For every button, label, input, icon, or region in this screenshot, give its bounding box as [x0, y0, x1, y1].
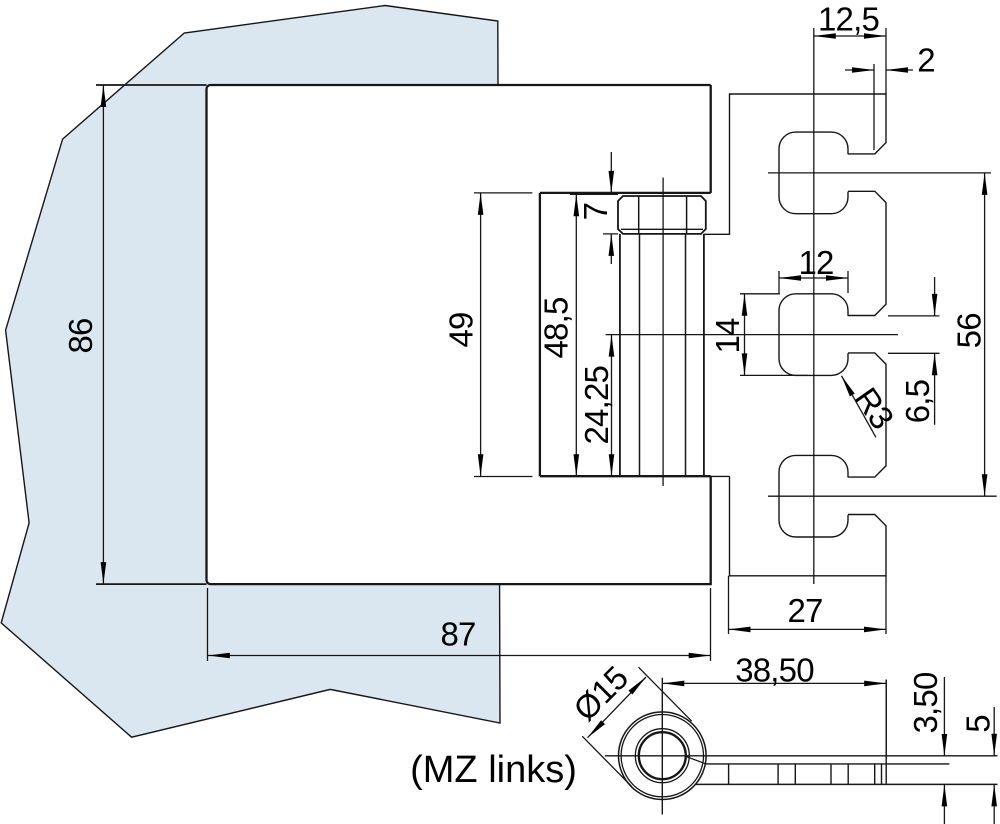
- barrel inner lines: [640, 234, 686, 476]
- svg-text:87: 87: [440, 615, 475, 652]
- svg-text:86: 86: [62, 318, 99, 353]
- hinge body outline: [207, 85, 711, 584]
- radius leader R3: [842, 376, 876, 438]
- nut bottom chamfer line: [621, 228, 703, 230]
- barrel centerline: [662, 178, 664, 487]
- side view: hole outer ring: [635, 729, 689, 783]
- dimension 87: [208, 588, 711, 661]
- side view: pivot barrel outer circle: [619, 712, 707, 800]
- dimension 14 (cavity height): [740, 294, 808, 376]
- dimension diameter 15: [582, 667, 692, 786]
- side view: arm segment ticks: [729, 764, 882, 785]
- svg-text:12,5: 12,5: [818, 0, 879, 37]
- dimension 2: [845, 64, 913, 150]
- svg-text:7: 7: [577, 203, 614, 221]
- bottom slot centerline: [768, 495, 997, 497]
- dimension 12,5: [814, 28, 886, 94]
- connector nut bottom to profile face: [704, 233, 730, 235]
- svg-text:2: 2: [917, 41, 935, 78]
- svg-text:38,50: 38,50: [735, 651, 814, 688]
- aluminium profile outline (top section): [730, 94, 887, 235]
- dimension 48,5: [575, 194, 577, 476]
- dimension 7: [603, 152, 618, 264]
- dimension 3,50: [943, 677, 945, 824]
- side view: hole bore: [639, 732, 686, 779]
- svg-text:24,25: 24,25: [578, 366, 615, 445]
- svg-text:R3: R3: [847, 381, 901, 435]
- svg-text:14: 14: [709, 318, 746, 354]
- dimension 12 (slot width): [779, 271, 848, 293]
- hinge body white fill: [207, 85, 711, 584]
- dimension 24,25: [611, 335, 613, 477]
- svg-text:27: 27: [787, 592, 822, 629]
- svg-text:3,50: 3,50: [907, 672, 944, 733]
- dimension 86: [102, 85, 104, 584]
- threaded barrel: [620, 234, 704, 476]
- dimension 56: [984, 173, 986, 496]
- side view: horizontal centerline / arm top line: [605, 755, 998, 757]
- profile outline between slot 1 and 2: [848, 191, 886, 315]
- T-slot cavity middle: [779, 294, 848, 376]
- hinge cutout left edge: [539, 193, 541, 476]
- T-slot cavity top: [779, 132, 848, 214]
- svg-text:49: 49: [442, 312, 479, 347]
- svg-text:56: 56: [950, 313, 987, 348]
- svg-text:48,5: 48,5: [537, 297, 574, 358]
- clamp nut: [618, 196, 706, 234]
- T-slot cavity bottom: [779, 455, 848, 537]
- svg-text:Ø15: Ø15: [566, 659, 635, 728]
- dimension 49: [474, 193, 532, 477]
- nut facet lines: [639, 196, 687, 234]
- dimension 5: [993, 707, 995, 824]
- dimension 38,50: [662, 680, 886, 757]
- svg-text:12: 12: [798, 244, 833, 281]
- side view: arm bottom line: [695, 783, 997, 785]
- middle slot centerline: [606, 334, 898, 336]
- dimension 27: [729, 576, 887, 634]
- glass panel (blue polygon): [1, 6, 500, 738]
- extension lines of dim 86: [96, 85, 207, 584]
- top slot centerline: [768, 172, 991, 174]
- side view: arm end: [885, 680, 887, 785]
- dimension 6,5 (slot opening): [888, 277, 940, 425]
- side view: wedge from hole to arm: [686, 757, 706, 764]
- side view: outer circle inner ring: [621, 715, 703, 797]
- svg-text:6,5: 6,5: [899, 380, 936, 423]
- hinge cutout step bottom: [540, 475, 711, 477]
- slot vertical centerline: [813, 28, 815, 584]
- profile outline bottom section: [730, 476, 887, 575]
- side view: arm second line: [705, 763, 949, 765]
- svg-text:5: 5: [959, 715, 996, 733]
- svg-text:(MZ links): (MZ links): [410, 749, 577, 791]
- nut top tick (ext of 48,5): [570, 193, 618, 195]
- connector step to profile face: [711, 475, 730, 477]
- profile outline between slot 2 and 3: [848, 353, 886, 477]
- hinge cutout step top: [540, 192, 711, 194]
- side view: vertical centerline: [661, 678, 663, 815]
